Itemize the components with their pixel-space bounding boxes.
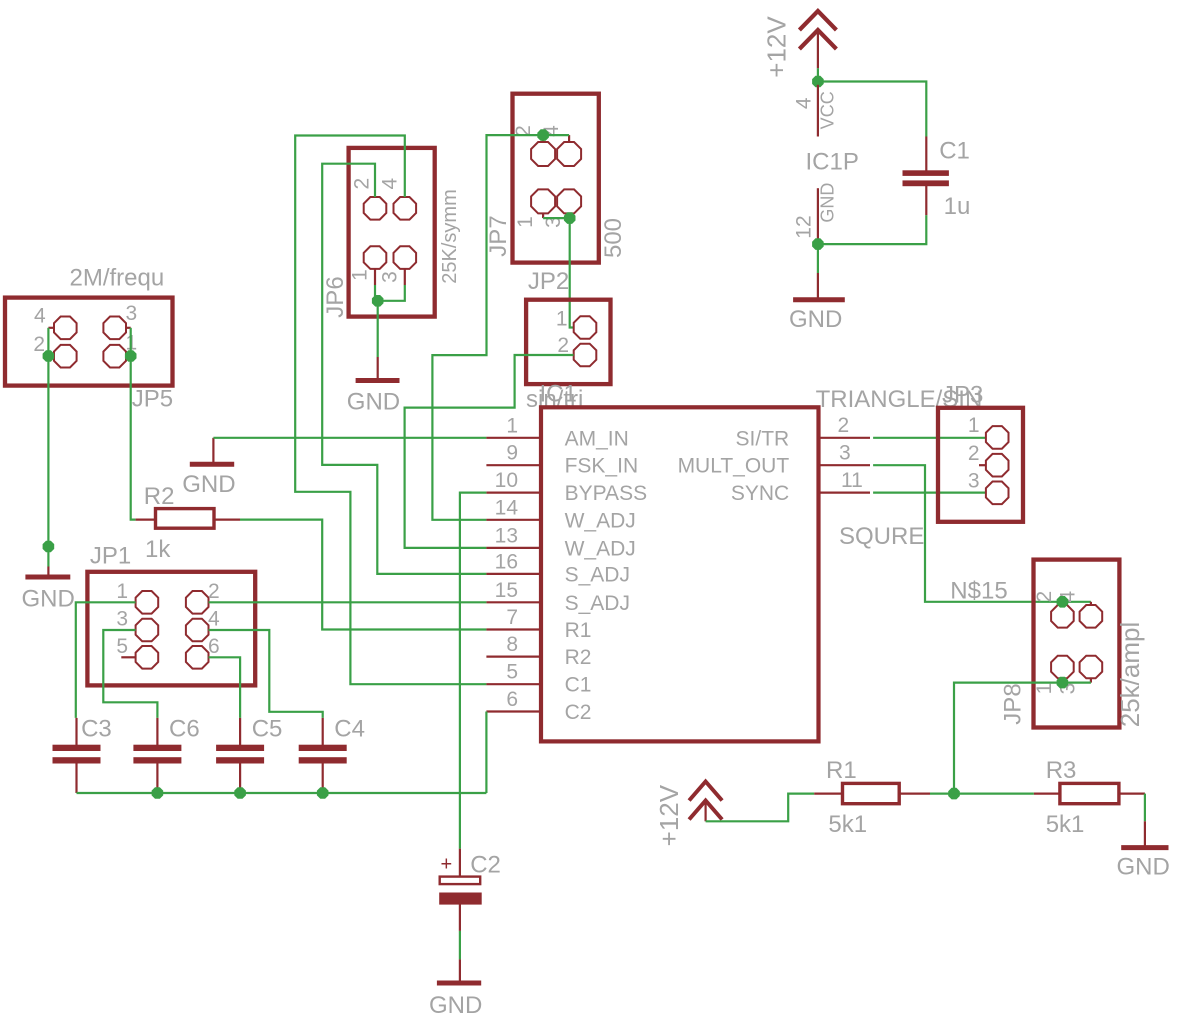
svg-text:GND: GND [789,306,842,333]
svg-text:IC1P: IC1P [806,149,859,176]
svg-text:C6: C6 [169,715,200,742]
JP5 pin 3 circle [103,317,126,340]
svg-text:1u: 1u [944,193,971,220]
wire JP2 pin2 to IC1 pin13 W_ADJ [405,355,574,548]
capacitor C3 plates [53,745,100,750]
svg-text:C2: C2 [565,701,592,724]
JP6 pin 1 circle [364,246,387,269]
JP3 pin 2 stub [979,464,986,466]
wire +12V bottom stem [704,800,706,821]
svg-text:C4: C4 [334,715,365,742]
svg-text:FSK_IN: FSK_IN [565,455,639,478]
wire JP6 pins 1,3 to ground [375,285,405,357]
svg-text:25K/symm: 25K/symm [439,189,461,283]
svg-text:2: 2 [838,414,850,437]
wire R3 to ground [1144,794,1146,822]
svg-text:R3: R3 [1046,757,1077,784]
JP8 pin 3 stub [1090,678,1092,682]
svg-text:JP7: JP7 [485,215,512,256]
capacitor C4 plates [299,745,346,750]
svg-text:1: 1 [349,269,372,281]
resistor R2 body [156,509,215,529]
wire GND symbol stub (AM_IN) [212,438,214,463]
wire IC1 pin10 BYPASS to C2 [460,493,487,849]
JP1 pin 3 circle [136,619,159,642]
+12V supply symbol (bottom) [689,782,722,820]
svg-text:1: 1 [968,414,980,437]
connector JP5 body [5,298,173,386]
ground symbol (below IC1P) [793,297,845,302]
wire JP5 pin1 to R2 [131,356,136,520]
svg-text:2: 2 [33,333,45,356]
svg-text:JP1: JP1 [90,543,131,570]
C2 top stub [459,849,461,876]
R2 left stub [136,518,156,520]
wire GND symbol stub (JP5) [47,567,49,576]
svg-text:BYPASS: BYPASS [565,482,647,505]
IC1 pin 13 stub [486,547,541,549]
svg-text:JP8: JP8 [1000,683,1027,724]
JP5 pin 4 circle [54,317,77,340]
IC1 pin 15 stub [486,601,541,603]
wire IC1P GND node down [817,244,819,273]
svg-text:JP5: JP5 [132,385,173,412]
wire GND symbol stub (R3) [1144,821,1146,845]
wire C1 bottom stub [925,186,927,215]
wire net TRIANGLE/SIN (pin2 SI/TR to JP3 pin1) [873,437,986,439]
JP8 pin 2 stub [1061,602,1063,605]
svg-text:2: 2 [351,178,374,190]
wire node to R3 [954,792,1034,794]
wire net +12V to IC1P pin4 and C1 [818,68,926,136]
junction JP8 pins 2-4 [1057,597,1067,607]
JP7 pin 1 circle [531,189,555,213]
junction JP5 pins 1-3 [126,351,136,361]
IC1 pin 8 stub [486,655,541,657]
svg-text:C3: C3 [81,715,112,742]
JP7 pin 3 stub [568,213,570,218]
svg-text:1: 1 [556,308,568,331]
wire JP7 pins 2,4 to IC1 pin14 W_ADJ [432,135,569,520]
svg-text:SI/TR: SI/TR [736,427,790,450]
JP8 pin 1 circle [1051,656,1074,679]
svg-text:6: 6 [506,688,518,711]
svg-text:C1: C1 [939,138,970,165]
JP1 pin 4 circle [186,619,209,642]
svg-text:4: 4 [793,97,816,109]
IC1 pin 7 stub [486,628,541,630]
svg-text:+12V: +12V [762,16,792,78]
svg-text:GND: GND [182,471,235,498]
JP6 pin 3 stub [404,269,406,285]
svg-text:W_ADJ: W_ADJ [565,509,636,532]
JP7 pin 2 circle [531,142,555,166]
svg-text:W_ADJ: W_ADJ [565,537,636,560]
wire JP1 pin6 to C5 [209,657,241,718]
svg-text:S_ADJ: S_ADJ [565,563,630,586]
wire JP8 pins 1,3 to R1/R3 node [954,683,1091,794]
wire GND symbol stub (IC1P) [817,273,819,298]
JP1 pin 1 circle [136,591,159,614]
JP8 pin 3 circle [1080,656,1103,679]
svg-text:15: 15 [495,579,518,602]
junction JP8 pins 1-3 [1057,678,1067,688]
ic IC1P pin 4 VCC stub [817,85,819,137]
svg-text:3: 3 [839,441,851,464]
junction JP5 pins 2-4 [43,351,53,361]
IC1 pin 16 stub [486,573,541,575]
wire JP7 pins 1,3 to JP2 pin1 [543,218,574,327]
op-amp/IC U1 IC1 body [541,407,819,741]
R3 right stub [1119,792,1145,794]
junction JP7 pins 2-4 [538,130,548,140]
IC1 pin 1 stub [486,437,541,439]
svg-text:5k1: 5k1 [1046,811,1085,838]
svg-text:JP3: JP3 [942,382,983,409]
connector JP7 body [513,94,599,263]
svg-text:GND: GND [818,183,838,223]
capacitor C2 plates [440,877,481,885]
svg-text:C2: C2 [470,851,501,878]
capacitor C1 plates [903,171,948,176]
JP5 pin 2 circle [54,345,77,368]
wire net GND from C1 bottom to IC1P pin12 [818,215,926,244]
svg-text:VCC: VCC [818,91,838,129]
JP6 pin 1 stub [374,269,376,285]
IC1 pin 10 stub [486,492,541,494]
wire JP5 pin3 to pin1 [130,328,132,356]
C3 top stub [75,718,77,745]
svg-text:C1: C1 [565,674,592,697]
JP5 pin 1 stub [126,355,131,357]
svg-text:JP6: JP6 [322,276,349,317]
junction +12V node [813,77,823,87]
svg-text:16: 16 [495,550,518,573]
R1 left stub [814,792,842,794]
svg-text:3: 3 [116,608,128,631]
ground symbol (below JP6) [356,378,400,383]
svg-text:C5: C5 [252,715,283,742]
wire JP6 pin2 to IC1 pin16 S_ADJ [322,164,486,574]
svg-text:7: 7 [506,606,518,629]
connector JP6 body [349,148,435,317]
JP5 pin 1 circle [103,345,126,368]
svg-text:GND: GND [22,586,75,613]
svg-text:500: 500 [600,218,627,258]
junction R1/R3 node [949,789,959,799]
svg-text:S_ADJ: S_ADJ [565,592,630,615]
IC1 pin 9 stub [486,464,541,466]
R2 right stub [214,518,240,520]
JP5 pin 3 stub [126,327,131,329]
wire R1 to node [930,792,954,794]
svg-text:5k1: 5k1 [828,811,867,838]
connector JP1 body [87,572,255,686]
ground symbol (below C2) [437,981,481,986]
JP3 pin 1 circle [986,426,1009,449]
svg-text:25k/ampl: 25k/ampl [1115,622,1145,728]
IC1 pin 11 stub [819,492,871,494]
svg-text:JP2: JP2 [528,268,569,295]
wire net N$15 (pin3 MULT_OUT to JP8) [873,465,1091,602]
svg-text:SYNC: SYNC [731,482,789,505]
svg-text:5: 5 [116,635,128,658]
svg-text:2M/frequ: 2M/frequ [70,265,165,292]
svg-text:4: 4 [34,305,46,328]
JP3 pin 3 circle [986,482,1009,505]
C2 bottom stub [459,904,461,931]
ground symbol (AM_IN net) [190,462,234,467]
wire JP1 pin1 to C3 [76,602,136,718]
svg-text:2: 2 [208,580,220,603]
svg-text:+: + [441,854,453,876]
JP8 pin 1 stub [1061,678,1063,682]
JP7 pin 1 stub [542,213,544,218]
svg-text:3: 3 [379,271,402,283]
JP5 pin 4 stub [48,327,54,329]
JP6 pin 2 circle [364,197,387,220]
C6 top stub [156,718,158,745]
C6 bottom stub [156,763,158,793]
JP6 pin 3 circle [394,246,417,269]
JP1 pin 5 stub [121,656,135,658]
JP6 pin 4 circle [394,197,417,220]
svg-text:AM_IN: AM_IN [565,427,629,450]
wire R2 to IC1 pin7 R1 [240,520,486,630]
resistor R3 body [1060,783,1119,803]
wire JP5 pin4 to pin2 [47,328,49,356]
IC1 pin 2 stub [819,437,871,439]
wire net SQURE (pin11 SYNC to JP3 pin3) [873,492,986,494]
C5 top stub [239,718,241,745]
JP7 pin 2 stub [542,135,544,142]
wire C1 top stub [925,137,927,171]
JP2 pin 1 circle [574,316,597,339]
connector JP3 body [938,408,1023,522]
svg-text:1k: 1k [145,536,171,563]
connector JP8 body [1034,560,1120,728]
JP2 pin 2 circle [574,344,597,367]
wire JP5 pin2 down to ground [47,356,49,567]
JP1 pin 2 circle [186,591,209,614]
svg-text:GND: GND [347,389,400,416]
svg-text:14: 14 [495,496,519,519]
svg-text:3: 3 [126,302,138,325]
svg-text:1: 1 [1033,683,1056,695]
svg-text:4: 4 [208,608,220,631]
wire +12V symbol stem [817,30,819,68]
R3 left stub [1034,792,1060,794]
C3 bottom stub [75,763,77,793]
svg-text:2: 2 [1033,591,1056,603]
junction IC1P GND node [813,239,823,249]
wire +12V to R1 [706,794,815,822]
wire JP1 pin2 to IC1 pin15 S_ADJ [209,601,487,603]
IC1 pin 5 stub [486,683,541,685]
IC1 pin 6 stub [486,710,541,712]
wire GND symbol stub (JP6) [377,357,379,379]
JP5 pin 2 stub [48,355,54,357]
svg-text:4: 4 [379,178,402,190]
junction on JP5 ground wire [43,542,53,552]
junction JP6 ground node [373,296,383,306]
svg-text:R2: R2 [144,483,175,510]
svg-text:2: 2 [557,334,569,357]
wire JP1 pin4 to C4 [209,630,323,718]
ic IC1P pin 12 GND stub [817,188,819,242]
svg-text:GND: GND [1117,854,1170,881]
wire JP6 pin4 to IC1 pin5 C1 [295,136,486,685]
resistor R1 body [843,783,900,803]
JP1 pin 6 circle [186,646,209,669]
svg-text:N$15: N$15 [950,578,1007,605]
svg-text:6: 6 [208,635,220,658]
svg-text:8: 8 [506,633,518,656]
svg-text:3: 3 [968,470,980,493]
junction C5 on bus [235,788,245,798]
svg-text:1: 1 [506,414,518,437]
svg-text:2: 2 [968,442,980,465]
JP1 pin 5 circle [136,646,159,669]
svg-text:1: 1 [514,216,537,228]
svg-text:11: 11 [841,469,863,492]
R1 right stub [899,792,930,794]
capacitor C6 plates [134,745,181,750]
svg-text:R1: R1 [826,757,857,784]
IC1 pin 14 stub [486,519,541,521]
svg-text:1: 1 [116,580,128,603]
ground symbol (below R3) [1121,845,1168,850]
JP7 pin 4 stub [568,135,570,142]
JP8 pin 2 circle [1051,605,1074,628]
svg-text:R1: R1 [565,619,592,642]
svg-text:10: 10 [495,469,518,492]
svg-text:+12V: +12V [654,784,684,846]
svg-text:9: 9 [506,442,518,465]
C5 bottom stub [239,763,241,793]
wire capacitor ground bus to IC1 pin6 C2 [77,712,487,794]
svg-text:IC1: IC1 [540,381,577,408]
svg-text:R2: R2 [565,646,592,669]
wire GND to IC1 pin1 AM_IN [213,437,486,439]
wire C2 to ground [459,931,461,960]
JP3 pin 2 circle [986,454,1009,477]
junction C4 on bus [318,788,328,798]
JP8 pin 4 stub [1090,602,1092,605]
JP7 pin 3 circle [557,189,581,213]
connector JP2 body [526,300,610,384]
JP8 pin 4 circle [1080,605,1103,628]
svg-text:12: 12 [793,215,816,238]
C4 top stub [322,718,324,745]
svg-text:5: 5 [506,661,518,684]
C4 bottom stub [322,763,324,793]
wire GND symbol stub (C2) [459,959,461,982]
JP7 pin 4 circle [557,142,581,166]
svg-text:MULT_OUT: MULT_OUT [678,455,790,478]
ground symbol (below JP5) [25,575,70,580]
svg-text:13: 13 [495,524,518,547]
capacitor C5 plates [217,745,264,750]
svg-text:SQURE: SQURE [839,523,924,550]
junction JP7 pins 1-3 [565,213,575,223]
+12V supply symbol (top right) [799,11,836,49]
wire JP1 pin3 to C6 [103,630,157,718]
svg-text:GND: GND [429,992,482,1019]
IC1 pin 3 stub [819,464,871,466]
junction C6 on bus [152,788,162,798]
